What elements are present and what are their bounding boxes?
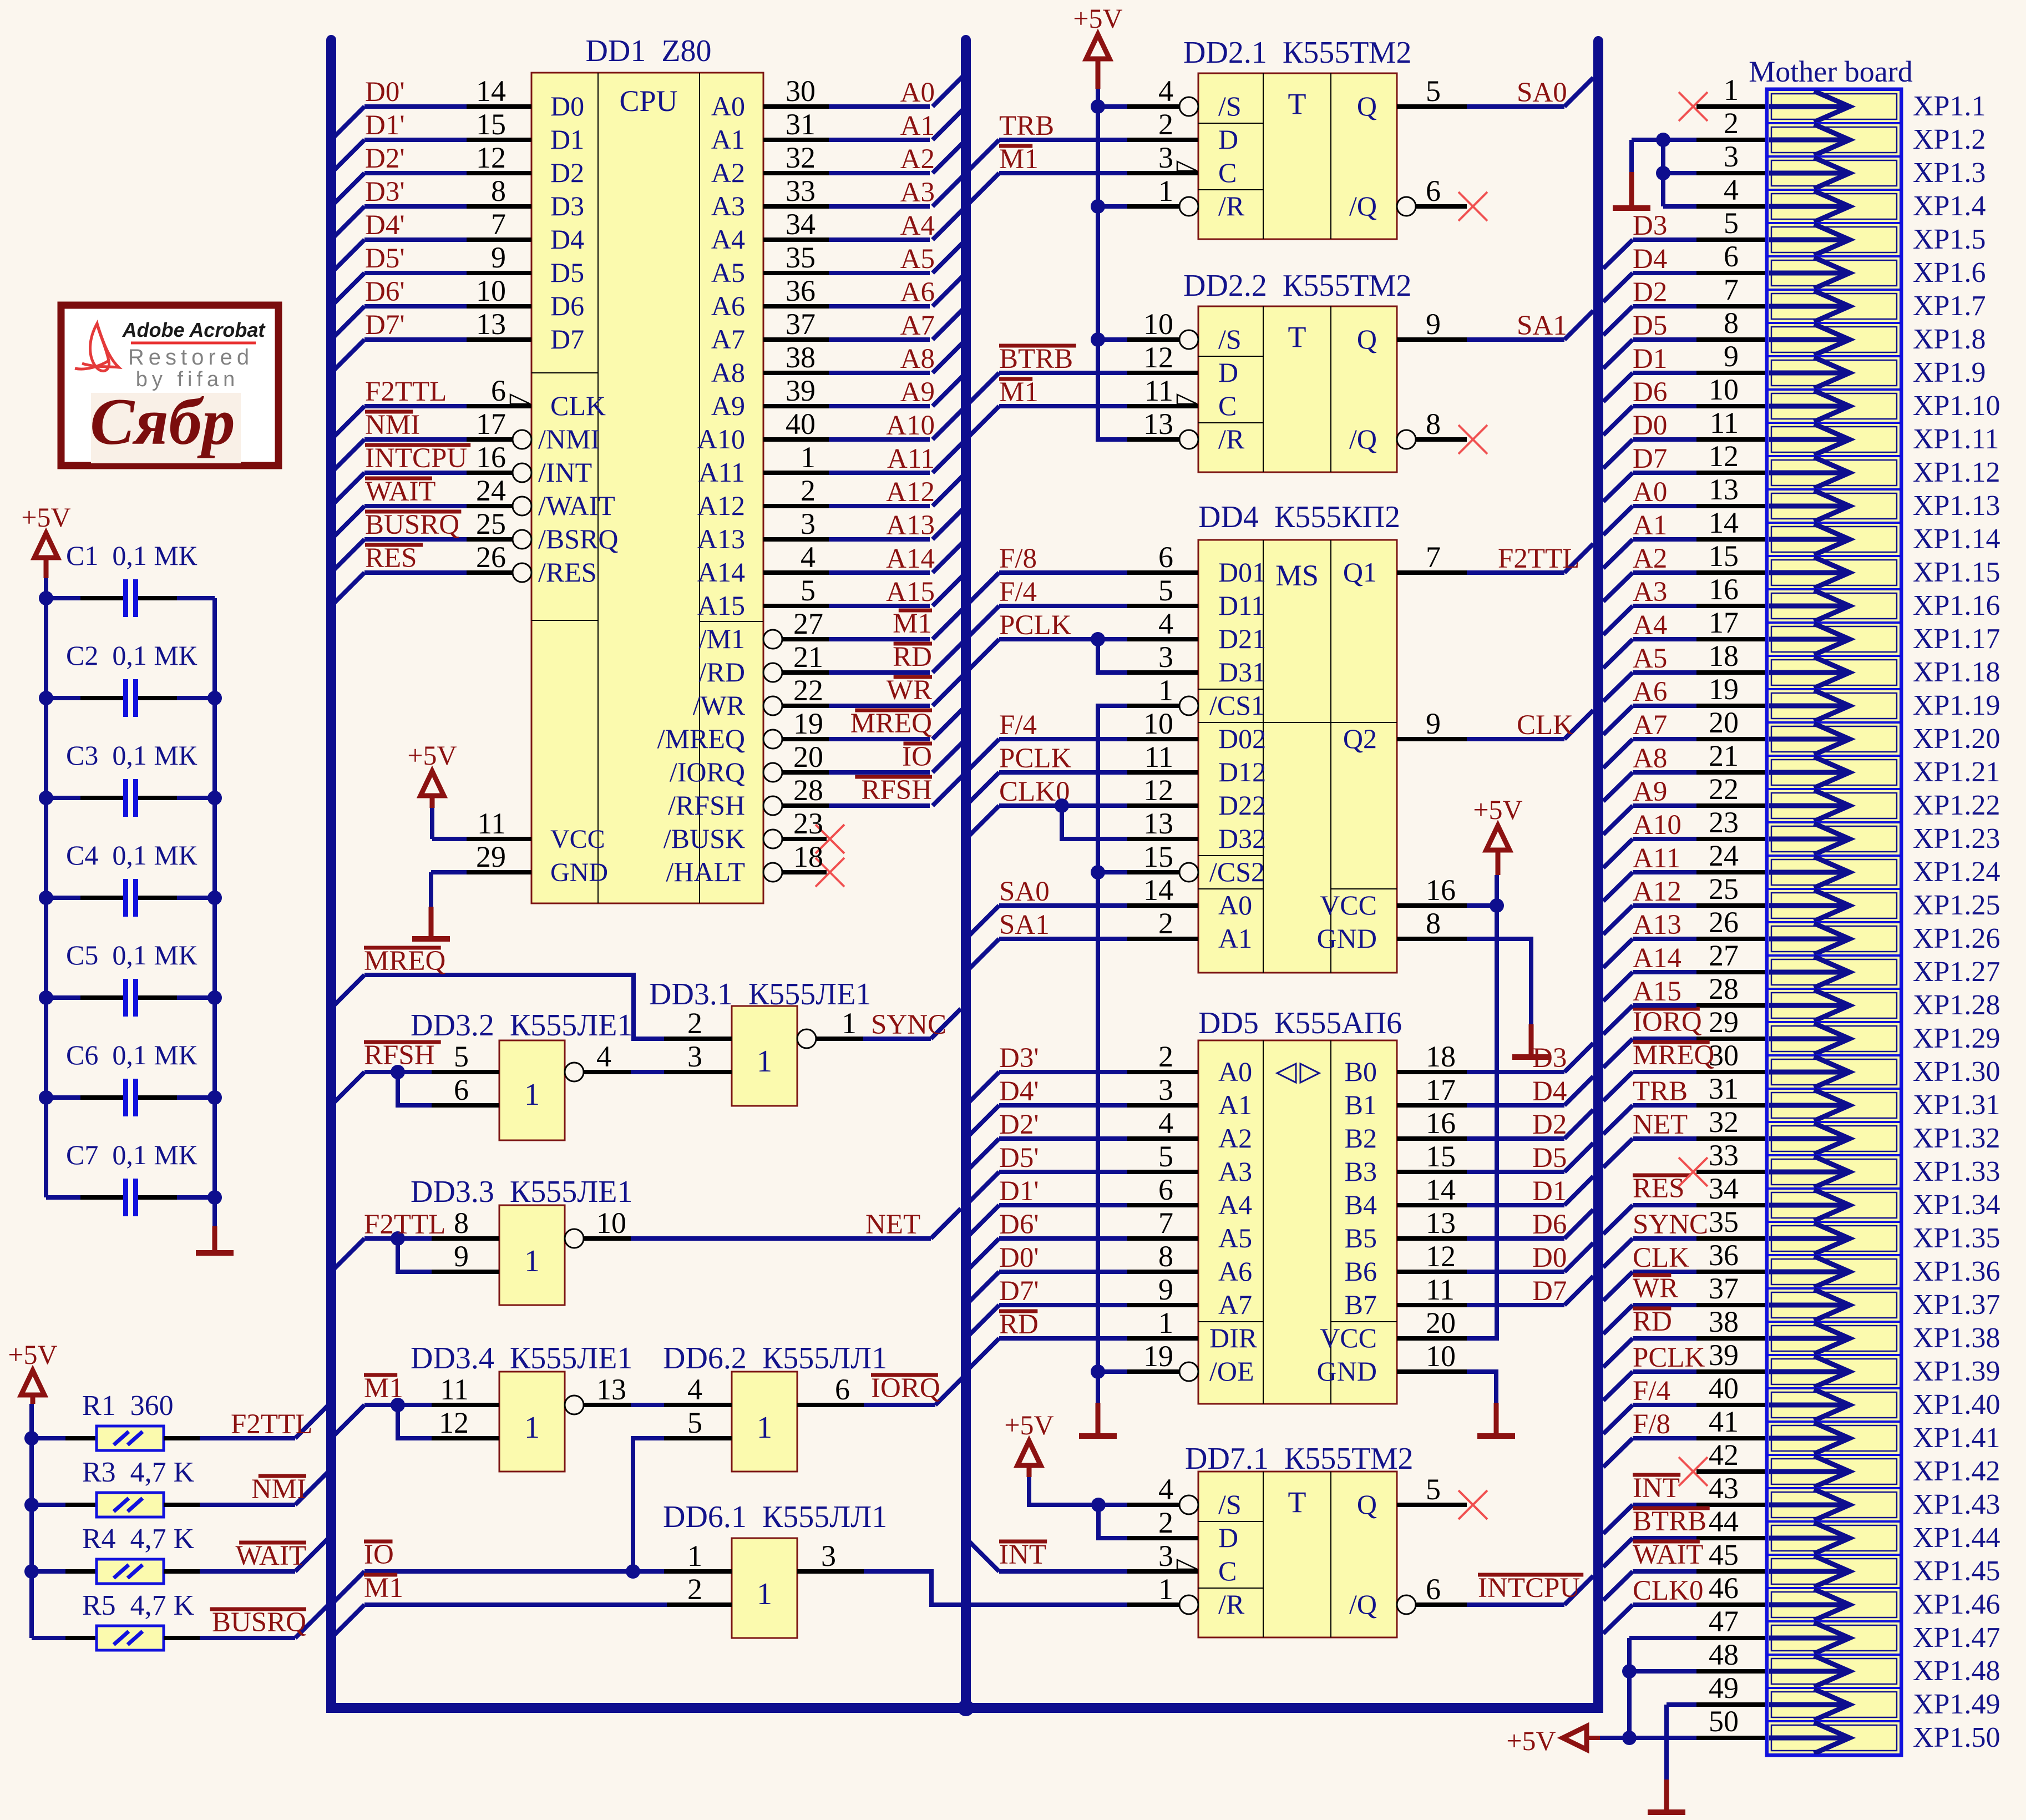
svg-text:47: 47 [1709,1605,1739,1638]
svg-text:+5V: +5V [1506,1725,1556,1756]
svg-text:A1: A1 [900,110,935,141]
svg-text:2: 2 [1158,907,1173,940]
svg-text:NMI: NMI [365,410,420,441]
svg-text:C: C [1218,157,1237,188]
svg-text:/R: /R [1218,1589,1245,1620]
svg-text:VCC: VCC [1320,1322,1377,1353]
svg-text:XP1.17: XP1.17 [1913,623,2000,655]
svg-text:9: 9 [1426,307,1441,341]
svg-text:A3: A3 [711,190,745,221]
svg-text:XP1.19: XP1.19 [1913,690,2000,721]
svg-text:D3: D3 [1633,210,1667,241]
svg-text:11: 11 [477,807,506,840]
svg-text:C5 0,1 МК: C5 0,1 МК [66,939,197,970]
svg-text:1: 1 [842,1007,857,1040]
svg-text:A15: A15 [886,577,935,608]
svg-text:45: 45 [1709,1538,1739,1571]
svg-text:21: 21 [793,640,823,674]
svg-text:40: 40 [786,407,816,441]
svg-text:/R: /R [1218,190,1245,221]
svg-text:6: 6 [835,1373,850,1406]
svg-text:18: 18 [793,840,823,873]
svg-text:17: 17 [1426,1073,1456,1106]
svg-text:XP1.11: XP1.11 [1913,423,1999,455]
svg-text:7: 7 [1158,1206,1173,1240]
svg-text:F/4: F/4 [1633,1376,1670,1407]
svg-text:5: 5 [1158,1140,1173,1173]
svg-text:A0: A0 [711,90,745,122]
svg-text:5: 5 [1724,206,1739,240]
svg-text:1: 1 [1724,73,1739,107]
svg-text:/Q: /Q [1349,190,1377,221]
svg-text:9: 9 [1426,707,1441,740]
svg-text:DD3.4 К555ЛЕ1: DD3.4 К555ЛЕ1 [411,1341,632,1376]
svg-text:XP1.7: XP1.7 [1913,290,1986,322]
svg-text:19: 19 [1709,673,1739,706]
svg-text:11: 11 [1710,406,1739,439]
svg-text:20: 20 [1709,706,1739,739]
svg-text:35: 35 [1709,1205,1739,1238]
svg-text:Mother board: Mother board [1749,55,1912,88]
svg-text:CLK: CLK [1517,710,1573,741]
svg-text:A13: A13 [1633,909,1681,941]
svg-text:A8: A8 [1633,743,1667,774]
svg-text:BUSRQ: BUSRQ [212,1607,306,1638]
svg-text:12: 12 [1143,774,1173,807]
svg-text:46: 46 [1709,1571,1739,1605]
svg-text:2: 2 [801,474,816,507]
svg-text:4: 4 [687,1373,702,1406]
svg-text:PCLK: PCLK [1633,1342,1705,1373]
svg-text:10: 10 [476,274,506,307]
svg-text:R4 4,7 K: R4 4,7 K [82,1523,195,1555]
svg-text:B2: B2 [1345,1123,1377,1154]
svg-text:8: 8 [1158,1240,1173,1273]
svg-text:DD3.1 К555ЛЕ1: DD3.1 К555ЛЕ1 [649,977,871,1012]
svg-text:10: 10 [1143,307,1173,341]
svg-text:DD3.3 К555ЛЕ1: DD3.3 К555ЛЕ1 [411,1175,632,1209]
svg-text:F/4: F/4 [999,577,1037,608]
svg-text:A4: A4 [711,224,745,255]
svg-text:41: 41 [1709,1405,1739,1438]
svg-text:C7 0,1 МК: C7 0,1 МК [66,1139,197,1170]
svg-text:5: 5 [454,1040,469,1073]
svg-text:26: 26 [1709,906,1739,939]
svg-text:Restored: Restored [128,345,254,370]
svg-text:D: D [1218,1522,1238,1553]
svg-text:A5: A5 [1633,643,1667,674]
svg-text:34: 34 [786,208,816,241]
svg-text:5: 5 [687,1406,702,1439]
svg-text:8: 8 [454,1206,469,1240]
svg-text:7: 7 [1724,273,1739,306]
svg-text:D: D [1218,124,1238,155]
svg-text:D5: D5 [1532,1142,1567,1174]
svg-text:9: 9 [1724,340,1739,373]
svg-text:A11: A11 [698,457,745,488]
svg-text:TRB: TRB [1633,1076,1688,1107]
svg-text:1: 1 [757,1411,772,1445]
svg-text:XP1.30: XP1.30 [1913,1056,2000,1088]
svg-text:37: 37 [1709,1272,1739,1305]
svg-text:R1 360: R1 360 [82,1390,174,1422]
svg-text:/S: /S [1218,90,1242,122]
svg-text:F/8: F/8 [1633,1409,1670,1440]
svg-text:9: 9 [454,1240,469,1273]
svg-text:16: 16 [1709,573,1739,606]
svg-text:14: 14 [476,74,506,108]
svg-text:RD: RD [1633,1306,1672,1337]
svg-text:A7: A7 [711,323,745,355]
svg-text:INT: INT [1633,1473,1680,1504]
svg-text:12: 12 [1709,439,1739,473]
svg-text:9: 9 [1158,1273,1173,1306]
svg-text:R5 4,7 K: R5 4,7 K [82,1590,195,1621]
svg-text:13: 13 [1143,407,1173,441]
svg-text:BTRB: BTRB [1633,1506,1706,1537]
svg-text:2: 2 [1158,108,1173,141]
svg-text:XP1.3: XP1.3 [1913,157,1986,189]
svg-text:A2: A2 [711,157,745,188]
svg-text:D0: D0 [1633,410,1667,441]
svg-text:CLK0: CLK0 [1633,1575,1704,1606]
svg-text:A5: A5 [900,244,935,275]
svg-text:43: 43 [1709,1472,1739,1505]
svg-text:27: 27 [793,607,823,640]
svg-text:XP1.21: XP1.21 [1913,756,2000,788]
svg-text:4: 4 [1158,74,1173,108]
svg-text:A14: A14 [886,543,935,574]
svg-text:29: 29 [476,840,506,873]
svg-text:C4 0,1 МК: C4 0,1 МК [66,840,197,871]
svg-text:XP1.41: XP1.41 [1913,1422,2000,1454]
svg-text:8: 8 [1724,306,1739,340]
svg-text:33: 33 [1709,1139,1739,1172]
svg-text:D21: D21 [1218,623,1266,654]
svg-text:SA0: SA0 [1517,77,1567,108]
svg-text:A13: A13 [886,510,935,541]
svg-text:XP1.31: XP1.31 [1913,1089,2000,1121]
svg-text:20: 20 [1426,1306,1456,1339]
svg-text:B0: B0 [1345,1056,1377,1087]
svg-text:6: 6 [1158,1173,1173,1206]
svg-text:8: 8 [491,174,506,208]
svg-text:3: 3 [1724,140,1739,173]
svg-text:D11: D11 [1218,590,1265,621]
svg-text:D01: D01 [1218,557,1266,588]
svg-text:RES: RES [1633,1173,1685,1204]
svg-text:IO: IO [902,741,932,772]
svg-text:39: 39 [1709,1338,1739,1372]
svg-text:36: 36 [1709,1238,1739,1272]
svg-text:4: 4 [596,1040,611,1073]
svg-text:16: 16 [1426,873,1456,907]
svg-text:24: 24 [476,474,506,507]
svg-text:D4: D4 [1633,244,1667,275]
svg-text:11: 11 [1426,1273,1455,1306]
svg-text:26: 26 [476,540,506,574]
svg-text:A11: A11 [1633,843,1680,874]
svg-text:6: 6 [491,374,506,407]
svg-text:B4: B4 [1345,1189,1377,1220]
svg-text:INT: INT [999,1539,1046,1570]
svg-text:A1: A1 [1633,510,1667,541]
svg-text:19: 19 [1143,1339,1173,1373]
svg-text:XP1.10: XP1.10 [1913,390,2000,422]
svg-text:/S: /S [1218,1489,1242,1520]
svg-text:/RFSH: /RFSH [668,790,745,821]
svg-text:M1: M1 [999,144,1039,175]
svg-text:D31: D31 [1218,656,1266,687]
svg-text:F2TTL: F2TTL [365,376,447,407]
svg-text:SA1: SA1 [999,909,1050,941]
svg-text:A2: A2 [1633,543,1667,574]
svg-text:14: 14 [1709,506,1739,539]
svg-text:B5: B5 [1345,1222,1377,1253]
svg-text:/M1: /M1 [699,623,745,654]
svg-text:29: 29 [1709,1005,1739,1039]
svg-text:D7: D7 [550,323,584,355]
svg-text:D4': D4' [365,210,405,241]
svg-text:D3: D3 [1532,1043,1567,1074]
svg-text:R3 4,7 K: R3 4,7 K [82,1457,195,1488]
svg-text:A8: A8 [711,357,745,388]
svg-text:3: 3 [1158,1073,1173,1106]
svg-text:1: 1 [524,1078,540,1112]
svg-text:17: 17 [476,407,506,441]
svg-text:4: 4 [1158,1106,1173,1140]
svg-text:XP1.36: XP1.36 [1913,1256,2000,1287]
svg-text:6: 6 [1158,540,1173,574]
svg-text:A7: A7 [900,310,935,341]
svg-text:D32: D32 [1218,823,1266,854]
svg-text:3: 3 [821,1539,836,1573]
svg-text:C2 0,1 МК: C2 0,1 МК [66,640,197,671]
svg-text:/INT: /INT [538,457,592,488]
svg-text:A0: A0 [900,77,935,108]
svg-text:GND: GND [1317,1356,1377,1387]
svg-text:D2': D2' [999,1109,1039,1140]
svg-text:D6: D6 [1633,377,1667,408]
svg-text:39: 39 [786,374,816,407]
svg-text:/CS2: /CS2 [1209,856,1265,887]
svg-text:2: 2 [1724,107,1739,140]
svg-text:D3': D3' [365,176,405,208]
svg-text:XP1.33: XP1.33 [1913,1156,2000,1187]
svg-text:12: 12 [1143,341,1173,374]
svg-text:M1: M1 [999,377,1039,408]
svg-text:M1: M1 [364,1373,403,1404]
svg-text:XP1.22: XP1.22 [1913,790,2000,821]
svg-text:SA0: SA0 [999,876,1050,907]
svg-text:GND: GND [1317,923,1377,954]
svg-text:XP1.45: XP1.45 [1913,1555,2000,1587]
svg-text:TRB: TRB [999,110,1054,141]
svg-text:NET: NET [865,1209,920,1240]
svg-text:1: 1 [524,1244,540,1278]
svg-text:Q: Q [1357,323,1377,355]
svg-text:Q: Q [1357,1489,1377,1520]
svg-text:D1': D1' [365,110,405,141]
svg-text:Q1: Q1 [1343,557,1377,588]
svg-text:11: 11 [440,1373,469,1406]
svg-text:32: 32 [786,141,816,174]
svg-text:D7: D7 [1633,443,1667,474]
svg-text:RD: RD [999,1309,1039,1340]
svg-text:XP1.12: XP1.12 [1913,457,2000,488]
svg-text:D7': D7' [999,1276,1039,1307]
svg-text:A15: A15 [1633,976,1681,1007]
svg-text:13: 13 [596,1373,626,1406]
svg-text:1: 1 [524,1411,540,1445]
svg-text:D2: D2 [550,157,584,188]
svg-text:D3: D3 [550,190,584,221]
svg-text:13: 13 [1143,807,1173,840]
svg-text:/BUSK: /BUSK [663,823,745,854]
svg-text:A6: A6 [900,277,935,308]
svg-text:6: 6 [454,1073,469,1106]
svg-text:D1: D1 [1633,343,1667,375]
svg-text:D6: D6 [1532,1209,1567,1240]
svg-text:XP1.14: XP1.14 [1913,523,2000,555]
svg-text:A0: A0 [1218,1056,1252,1087]
svg-text:24: 24 [1709,839,1739,872]
svg-text:D0': D0' [999,1242,1039,1273]
svg-text:XP1.27: XP1.27 [1913,956,2000,988]
svg-text:DD5 К555АП6: DD5 К555АП6 [1198,1006,1402,1040]
svg-text:XP1.44: XP1.44 [1913,1522,2000,1554]
svg-text:T: T [1288,1485,1306,1519]
svg-text:PCLK: PCLK [999,743,1072,774]
svg-text:D1: D1 [1532,1176,1567,1207]
svg-text:A6: A6 [1633,676,1667,707]
svg-text:C3 0,1 МК: C3 0,1 МК [66,740,197,771]
svg-text:13: 13 [476,307,506,341]
svg-text:A0: A0 [1218,889,1252,921]
svg-text:RD: RD [893,641,932,673]
svg-text:49: 49 [1709,1671,1739,1705]
svg-text:IORQ: IORQ [871,1373,940,1404]
svg-text:MREQ: MREQ [1633,1040,1714,1071]
svg-text:XP1.42: XP1.42 [1913,1455,2000,1487]
svg-text:12: 12 [1426,1240,1456,1273]
svg-text:XP1.46: XP1.46 [1913,1589,2000,1620]
svg-text:Q2: Q2 [1343,723,1377,754]
svg-text:T: T [1288,87,1306,120]
svg-text:XP1.37: XP1.37 [1913,1289,2000,1321]
svg-text:NET: NET [1633,1109,1688,1140]
svg-text:/S: /S [1218,323,1242,355]
svg-text:WAIT: WAIT [236,1540,306,1571]
svg-text:XP1.39: XP1.39 [1913,1356,2000,1387]
svg-text:XP1.32: XP1.32 [1913,1123,2000,1154]
svg-text:D0: D0 [550,90,584,122]
svg-text:15: 15 [1709,539,1739,573]
svg-text:3: 3 [1158,1539,1173,1573]
svg-text:A2: A2 [1218,1123,1252,1154]
svg-text:31: 31 [786,108,816,141]
svg-text:/WAIT: /WAIT [538,490,615,521]
svg-text:10: 10 [1426,1339,1456,1373]
svg-text:5: 5 [1158,574,1173,607]
svg-text:XP1.35: XP1.35 [1913,1222,2000,1254]
svg-text:A5: A5 [1218,1222,1252,1253]
svg-text:DD6.2 К555ЛЛ1: DD6.2 К555ЛЛ1 [663,1341,887,1376]
svg-text:C6 0,1 МК: C6 0,1 МК [66,1039,197,1070]
svg-text:2: 2 [1158,1506,1173,1539]
svg-text:D6': D6' [999,1209,1039,1240]
svg-text:A15: A15 [697,590,745,621]
svg-text:XP1.34: XP1.34 [1913,1189,2000,1221]
svg-text:GND: GND [550,858,608,887]
svg-text:F2TTL: F2TTL [364,1209,445,1240]
svg-text:XP1.50: XP1.50 [1913,1722,2000,1753]
svg-text:C: C [1218,390,1237,421]
svg-text:XP1.1: XP1.1 [1913,90,1986,122]
svg-text:A4: A4 [1633,610,1667,641]
svg-text:10: 10 [1143,707,1173,740]
svg-text:A9: A9 [1633,776,1667,807]
svg-text:DIR: DIR [1209,1322,1258,1353]
svg-text:/HALT: /HALT [666,856,745,887]
svg-text:D2': D2' [365,143,405,174]
svg-text:17: 17 [1709,606,1739,639]
svg-text:7: 7 [491,208,506,241]
svg-text:XP1.24: XP1.24 [1913,856,2000,888]
svg-text:4: 4 [1158,1473,1173,1506]
svg-text:27: 27 [1709,939,1739,972]
svg-text:2: 2 [687,1007,702,1040]
svg-text:D6: D6 [550,290,584,321]
svg-text:RFSH: RFSH [861,775,932,806]
svg-text:BTRB: BTRB [999,343,1073,375]
svg-text:25: 25 [1709,872,1739,906]
svg-text:MS: MS [1275,559,1319,592]
svg-text:WR: WR [887,675,932,706]
svg-text:2: 2 [1158,1040,1173,1073]
svg-text:/RES: /RES [538,557,597,588]
svg-text:WR: WR [1633,1273,1678,1304]
svg-text:12: 12 [476,141,506,174]
svg-text:A1: A1 [1218,1089,1252,1120]
svg-text:Сябр: Сябр [90,385,235,458]
svg-text:1: 1 [1158,174,1173,208]
svg-text:B3: B3 [1345,1156,1377,1187]
svg-text:M1: M1 [893,608,932,639]
svg-text:XP1.40: XP1.40 [1913,1389,2000,1420]
svg-text:D1: D1 [550,124,584,155]
svg-text:28: 28 [1709,972,1739,1005]
svg-text:M1: M1 [364,1573,403,1604]
svg-text:XP1.28: XP1.28 [1913,989,2000,1021]
svg-text:D5': D5' [999,1142,1039,1174]
svg-text:D2: D2 [1633,277,1667,308]
svg-text:XP1.49: XP1.49 [1913,1688,2000,1720]
svg-text:A3: A3 [1633,577,1667,608]
svg-text:XP1.25: XP1.25 [1913,889,2000,921]
svg-text:44: 44 [1709,1505,1739,1538]
svg-text:5: 5 [1426,1473,1441,1506]
svg-text:XP1.18: XP1.18 [1913,656,2000,688]
svg-text:18: 18 [1426,1040,1456,1073]
svg-text:D0': D0' [365,77,405,108]
svg-text:/Q: /Q [1349,423,1377,454]
svg-text:A0: A0 [1633,477,1667,508]
svg-text:1: 1 [801,441,816,474]
svg-text:A9: A9 [711,390,745,421]
svg-text:D4': D4' [999,1076,1039,1107]
svg-text:28: 28 [793,774,823,807]
